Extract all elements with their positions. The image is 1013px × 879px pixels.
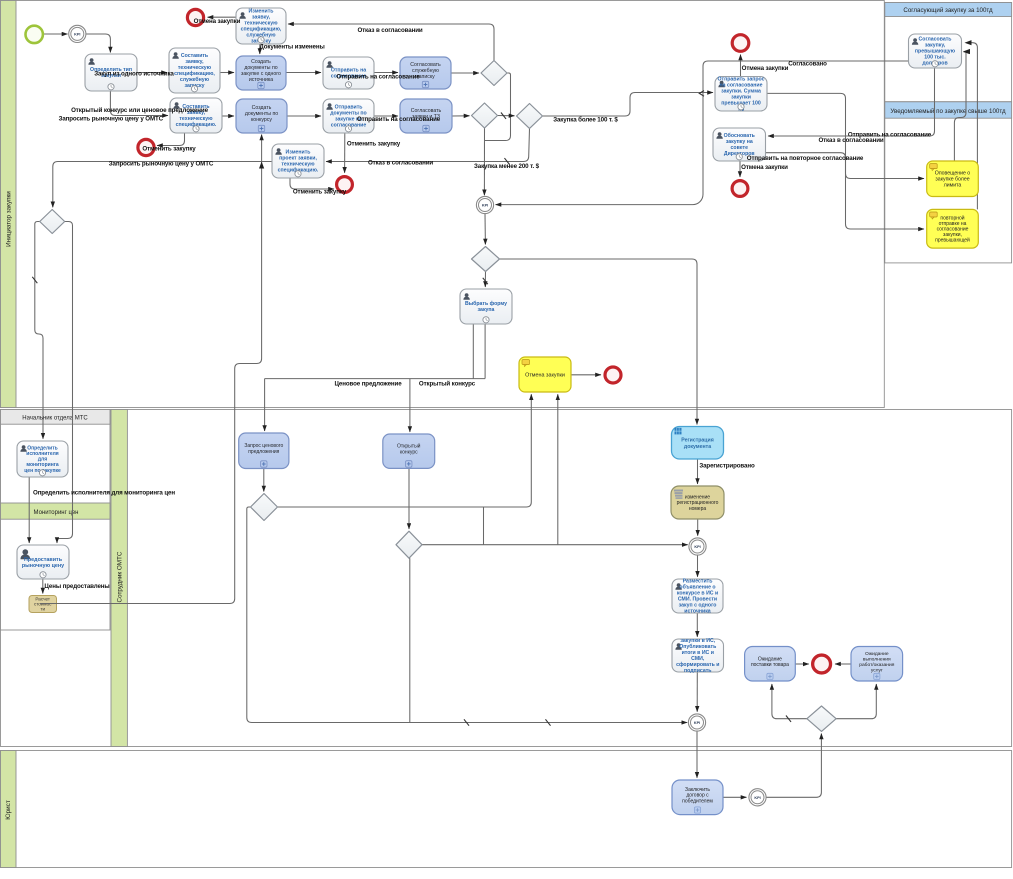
- svg-text:Отказ в согласовании: Отказ в согласовании: [357, 27, 422, 34]
- svg-text:KPI: KPI: [694, 721, 700, 725]
- svg-text:Отменить закупку: Отменить закупку: [293, 189, 347, 196]
- svg-text:Согласовано: Согласовано: [788, 61, 827, 68]
- svg-text:Открытыйконкурс: Открытыйконкурс: [397, 442, 421, 455]
- svg-text:Закупка менее 200 т. $: Закупка менее 200 т. $: [474, 163, 540, 170]
- svg-text:Инициатор закупки: Инициатор закупки: [6, 191, 13, 247]
- svg-text:Открытый конкурс или ценовое п: Открытый конкурс или ценовое предложение: [71, 107, 208, 114]
- svg-text:Отказ в согласовании: Отказ в согласовании: [368, 160, 433, 167]
- svg-text:Документы изменены: Документы изменены: [259, 44, 324, 51]
- svg-text:Открытый конкурс: Открытый конкурс: [419, 381, 476, 388]
- svg-text:Запросить рыночную цену у ОМТС: Запросить рыночную цену у ОМТС: [109, 161, 214, 168]
- svg-text:Зарегистрировано: Зарегистрировано: [699, 463, 755, 470]
- svg-text:Отмена закупки: Отмена закупки: [741, 164, 788, 171]
- svg-text:Отмена закупки: Отмена закупки: [742, 65, 789, 72]
- svg-text:Отмена закупки: Отмена закупки: [525, 372, 565, 378]
- svg-text:Отказ в согласовании: Отказ в согласовании: [818, 137, 883, 144]
- svg-text:Запросить рыночную цену у ОМТС: Запросить рыночную цену у ОМТС: [59, 116, 164, 123]
- svg-text:Сотрудник ОМТС: Сотрудник ОМТС: [117, 551, 124, 602]
- svg-text:Уведомляемый по закупке свыше: Уведомляемый по закупке свыше 100тд: [890, 108, 1006, 115]
- svg-text:Отправить на согласование: Отправить на согласование: [357, 116, 441, 123]
- svg-text:Отменить закупку: Отменить закупку: [347, 141, 401, 148]
- svg-text:KPI: KPI: [482, 204, 488, 208]
- svg-text:Цены предоставлены: Цены предоставлены: [44, 583, 109, 590]
- svg-text:KPI: KPI: [754, 796, 760, 800]
- svg-text:Регистрациядокумента: Регистрациядокумента: [681, 438, 713, 450]
- svg-text:Закуп из одного источника: Закуп из одного источника: [94, 71, 174, 78]
- svg-text:Отменить закупку: Отменить закупку: [142, 146, 196, 153]
- svg-text:Закупка более 100 т. $: Закупка более 100 т. $: [553, 117, 618, 124]
- svg-text:Запрос ценовогопредложения: Запрос ценовогопредложения: [244, 443, 283, 455]
- svg-text:KPI: KPI: [694, 545, 700, 549]
- svg-text:Отмена закупки: Отмена закупки: [194, 18, 241, 25]
- svg-text:Ценовое предложение: Ценовое предложение: [334, 381, 402, 388]
- svg-text:Юрист: Юрист: [5, 800, 12, 820]
- svg-text:Начальник отдела МТС: Начальник отдела МТС: [22, 416, 88, 422]
- svg-text:Мониторинг цен: Мониторинг цен: [34, 510, 79, 516]
- svg-text:Отправить на повторное согласо: Отправить на повторное согласование: [747, 155, 864, 162]
- svg-text:Определить исполнителя для мон: Определить исполнителя для мониторинга ц…: [33, 490, 175, 497]
- svg-text:Согласующий закупку за 100тд: Согласующий закупку за 100тд: [903, 7, 993, 14]
- svg-text:KPI: KPI: [74, 32, 80, 36]
- svg-text:Предоставитьрыночную цену: Предоставитьрыночную цену: [22, 557, 64, 569]
- svg-text:Отправить на согласование: Отправить на согласование: [336, 74, 420, 81]
